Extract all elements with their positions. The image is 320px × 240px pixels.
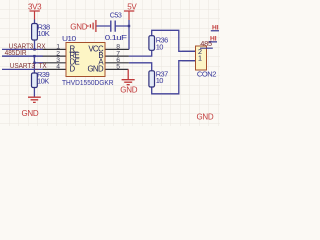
svg-text:0.1uF: 0.1uF xyxy=(105,33,128,42)
svg-text:GND: GND xyxy=(87,64,103,73)
svg-text:3V3: 3V3 xyxy=(28,3,42,12)
svg-text:485DIR: 485DIR xyxy=(5,48,27,57)
svg-text:10K: 10K xyxy=(38,29,50,38)
svg-text:10K: 10K xyxy=(37,77,49,86)
svg-text:GND: GND xyxy=(22,109,39,118)
svg-text:CON2: CON2 xyxy=(197,70,216,79)
svg-text:10: 10 xyxy=(156,42,164,51)
svg-text:5: 5 xyxy=(116,64,120,71)
svg-text:4: 4 xyxy=(56,64,60,71)
svg-text:1: 1 xyxy=(198,54,202,63)
svg-text:C53: C53 xyxy=(110,11,122,20)
svg-text:GND: GND xyxy=(70,22,87,31)
svg-text:USART3_TX: USART3_TX xyxy=(10,61,47,70)
svg-text:THVD1550DGKR: THVD1550DGKR xyxy=(62,78,114,87)
svg-text:GND: GND xyxy=(120,86,137,95)
svg-text:5V: 5V xyxy=(127,3,137,12)
svg-text:U10: U10 xyxy=(62,34,76,43)
svg-text:10: 10 xyxy=(156,76,164,85)
svg-text:GND: GND xyxy=(197,113,214,122)
